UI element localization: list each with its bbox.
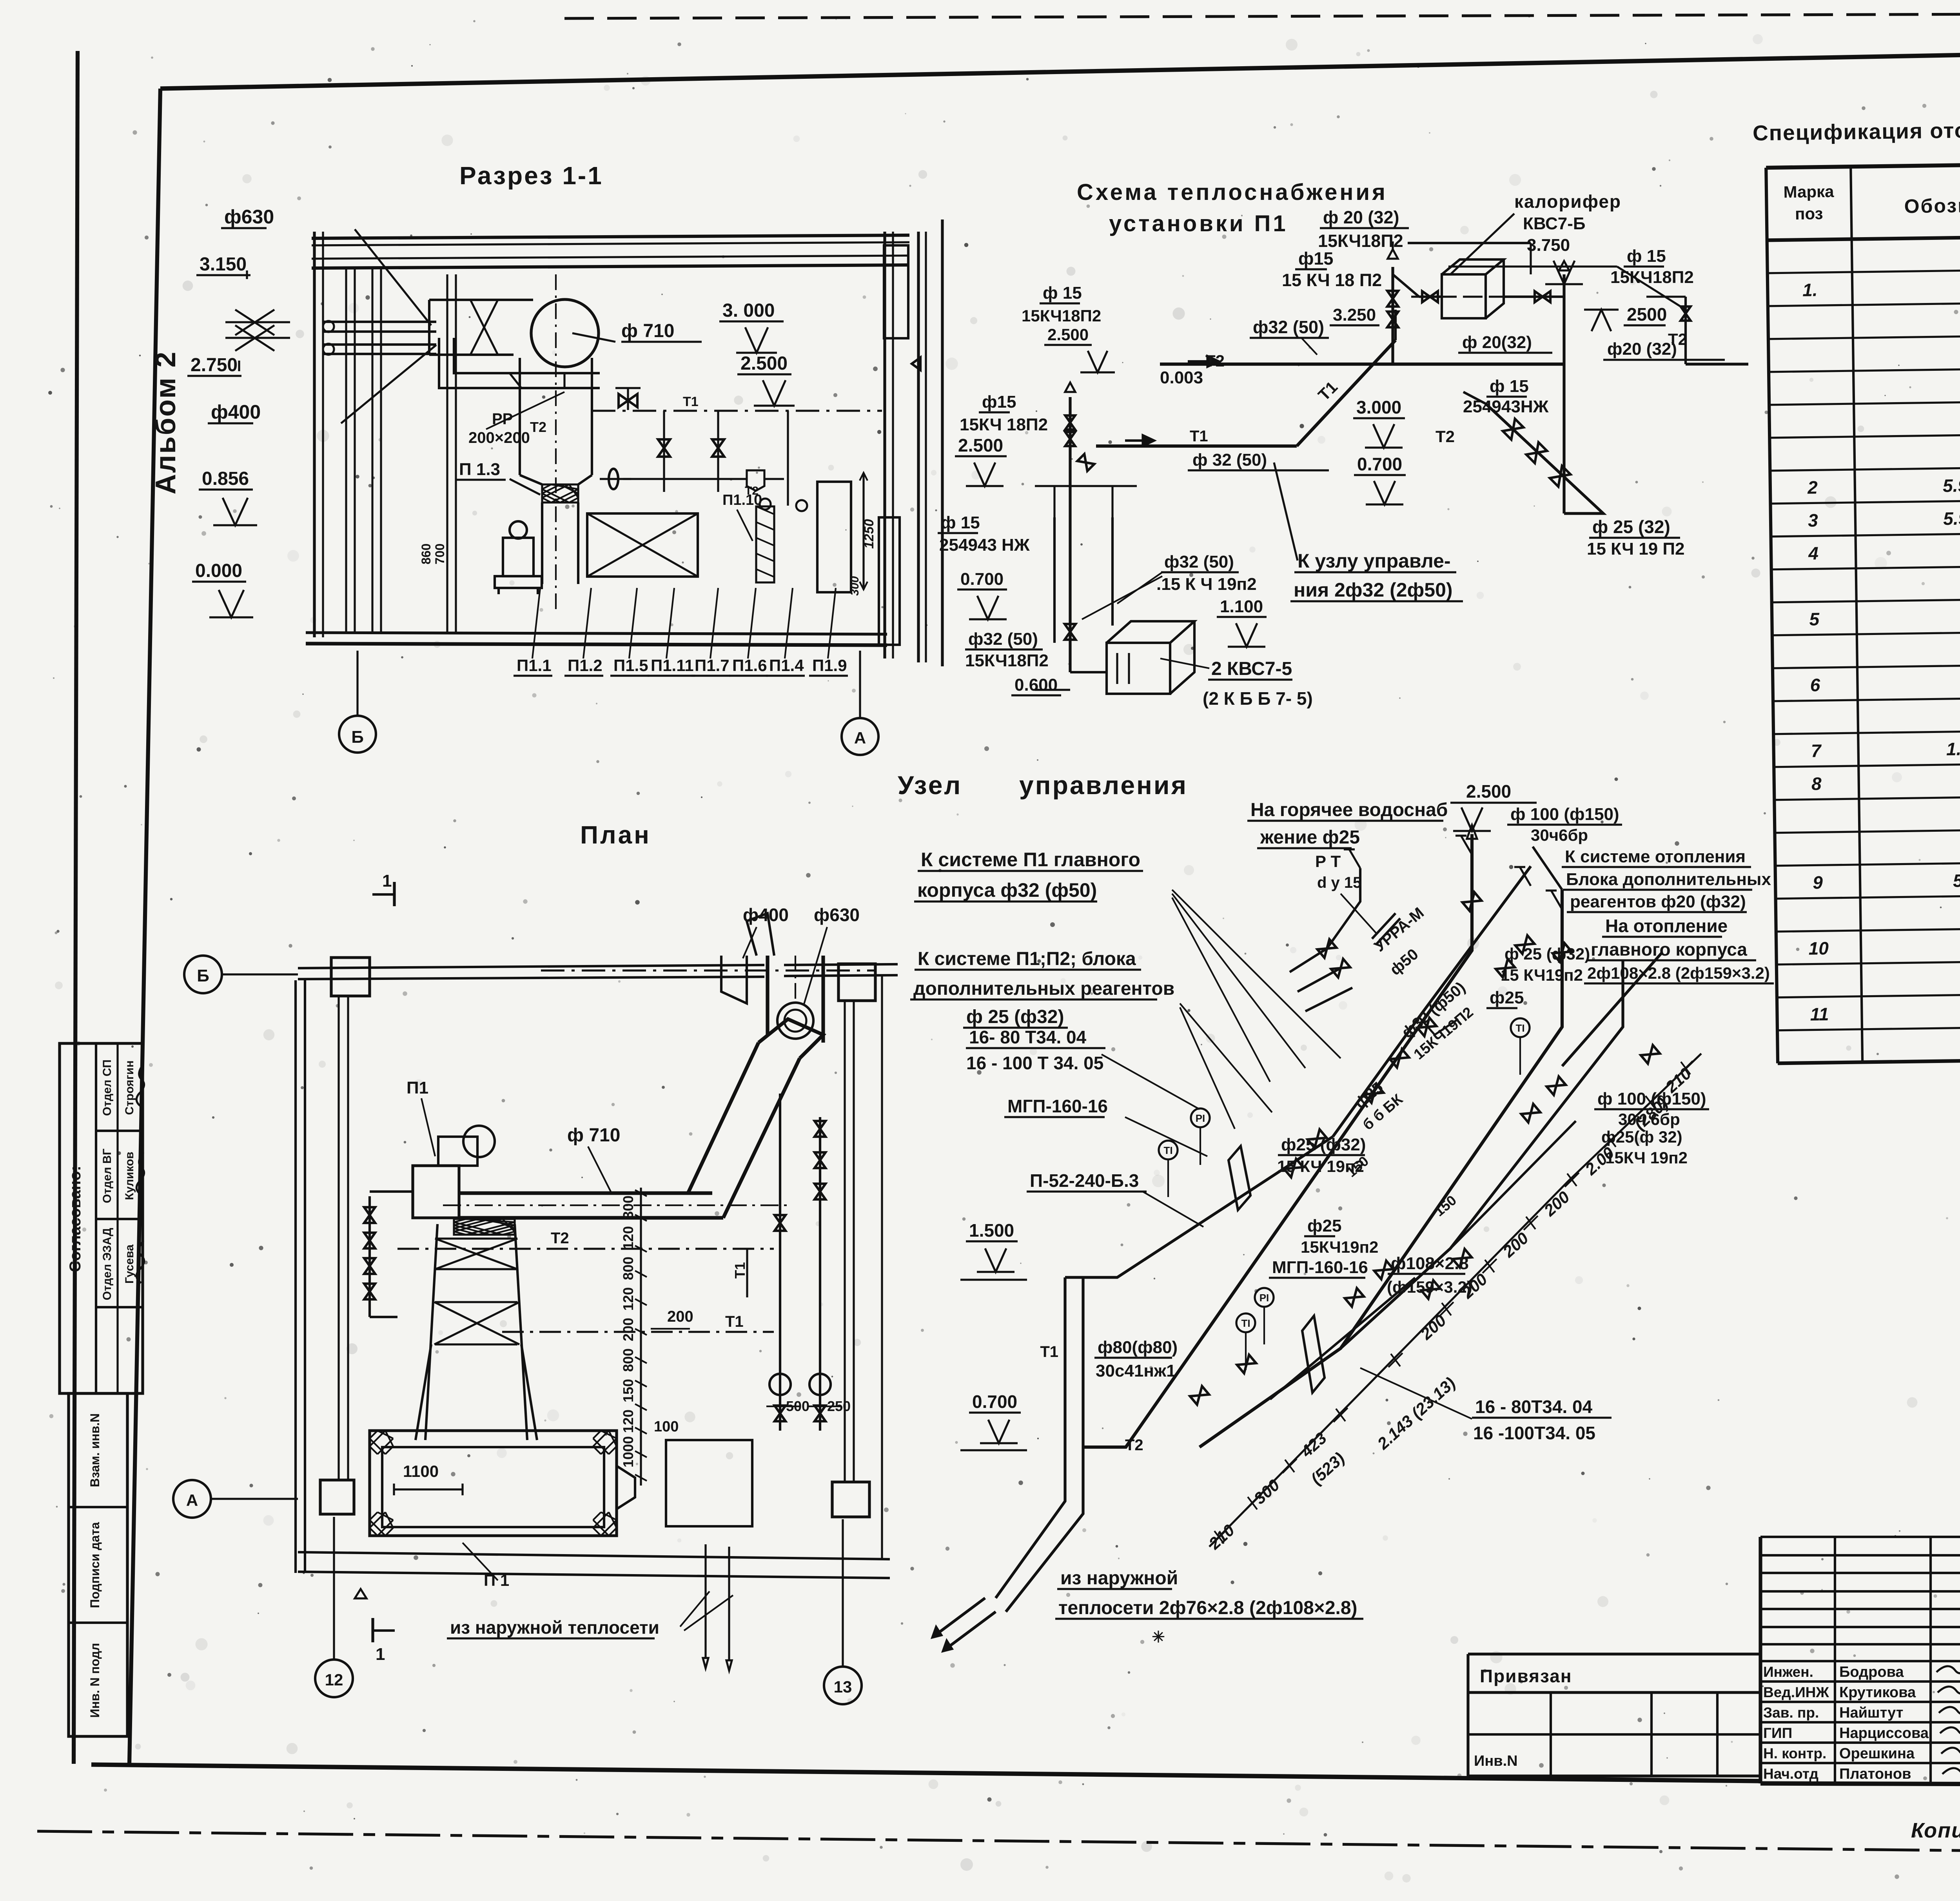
svg-text:П 1.3: П 1.3 (459, 460, 500, 479)
svg-text:Т1: Т1 (732, 1262, 748, 1279)
svg-text:П1: П1 (407, 1078, 428, 1097)
svg-text:ф630: ф630 (814, 905, 860, 925)
svg-text:150: 150 (620, 1379, 636, 1402)
svg-text:1.494-25: 1.494-25 (1946, 738, 1960, 759)
svg-text:5.904-38: 5.904-38 (1943, 475, 1960, 496)
svg-text:2.750: 2.750 (191, 355, 238, 375)
svg-text:Отдел СП: Отдел СП (101, 1059, 114, 1116)
svg-text:16 -100Т34. 05: 16 -100Т34. 05 (1473, 1423, 1595, 1443)
svg-text:ния 2ф32 (2ф50): ния 2ф32 (2ф50) (1294, 579, 1453, 601)
svg-text:П1.9: П1.9 (812, 656, 847, 675)
svg-text:Крутикова: Крутикова (1839, 1684, 1916, 1701)
svg-text:1.: 1. (1802, 279, 1818, 300)
svg-text:Согласовано:: Согласовано: (67, 1166, 84, 1272)
svg-text:Копировал: Копировал (1911, 1819, 1960, 1842)
svg-text:8: 8 (1811, 773, 1822, 794)
svg-text:ф 25 (32): ф 25 (32) (1592, 517, 1670, 537)
svg-text:d у 15: d у 15 (1317, 874, 1361, 891)
svg-text:Отдел ВГ: Отдел ВГ (101, 1148, 114, 1203)
svg-text:ф15: ф15 (982, 392, 1016, 412)
svg-text:4: 4 (1808, 543, 1818, 563)
svg-text:ф400: ф400 (743, 905, 789, 925)
svg-text:ф25: ф25 (1490, 988, 1524, 1007)
svg-text:15КЧ18П2: 15КЧ18П2 (1022, 307, 1101, 325)
svg-text:120: 120 (620, 1226, 636, 1250)
svg-text:7: 7 (1811, 740, 1822, 761)
svg-text:1.500: 1.500 (969, 1220, 1014, 1241)
svg-text:Инв.N: Инв.N (1474, 1753, 1518, 1769)
svg-text:✳: ✳ (1152, 1629, 1165, 1646)
svg-text:15КЧ 19п2: 15КЧ 19п2 (1605, 1148, 1688, 1167)
svg-text:ф 100 (ф150): ф 100 (ф150) (1510, 805, 1619, 824)
svg-text:Гусева: Гусева (123, 1244, 136, 1284)
svg-text:800: 800 (620, 1348, 636, 1372)
svg-text:Нач.отд: Нач.отд (1763, 1766, 1818, 1782)
svg-text:30ч6бр: 30ч6бр (1531, 826, 1588, 844)
svg-text:3. 000: 3. 000 (722, 300, 775, 321)
svg-text:12: 12 (325, 1671, 343, 1689)
svg-text:100: 100 (654, 1418, 679, 1435)
svg-text:Марка: Марка (1783, 182, 1834, 201)
svg-text:К системе П1 главного: К системе П1 главного (921, 849, 1140, 871)
svg-text:15КЧ18П2: 15КЧ18П2 (1318, 231, 1403, 251)
svg-text:А: А (186, 1491, 198, 1509)
svg-text:ГИП: ГИП (1763, 1725, 1792, 1741)
svg-text:главного корпуса: главного корпуса (1591, 939, 1747, 960)
svg-text:корпуса ф32 (ф50): корпуса ф32 (ф50) (917, 879, 1097, 901)
svg-text:МГП-160-16: МГП-160-16 (1272, 1258, 1368, 1277)
svg-text:ф 15: ф 15 (941, 513, 980, 532)
svg-text:15КЧ18П2: 15КЧ18П2 (965, 651, 1049, 670)
svg-text:0.003: 0.003 (1160, 368, 1203, 387)
svg-text:ф 25 (ф32): ф 25 (ф32) (966, 1007, 1064, 1027)
svg-text:ф 15: ф 15 (1043, 283, 1082, 303)
svg-text:КВС7-Б: КВС7-Б (1523, 214, 1585, 233)
svg-text:ТI: ТI (1163, 1145, 1172, 1156)
svg-text:установки П1: установки П1 (1109, 211, 1288, 236)
svg-text:16- 80 Т34. 04: 16- 80 Т34. 04 (969, 1027, 1087, 1047)
svg-text:10: 10 (1808, 938, 1829, 959)
svg-text:0.600: 0.600 (1014, 675, 1058, 695)
svg-text:2: 2 (1807, 477, 1818, 497)
svg-text:Т2: Т2 (1436, 427, 1455, 446)
svg-text:Куликов: Куликов (123, 1152, 136, 1200)
svg-text:3.250: 3.250 (1333, 305, 1376, 325)
svg-text:Т2: Т2 (530, 419, 546, 435)
svg-text:Т1: Т1 (683, 394, 699, 409)
svg-text:ф25: ф25 (1307, 1216, 1341, 1235)
svg-text:П1.2: П1.2 (568, 656, 603, 675)
svg-text:управления: управления (1019, 771, 1188, 800)
svg-text:П1.11: П1.11 (651, 656, 694, 675)
svg-text:1250: 1250 (862, 519, 877, 549)
svg-text:30с41нж1: 30с41нж1 (1096, 1361, 1176, 1380)
svg-text:ф 15: ф 15 (1627, 247, 1666, 266)
svg-text:из наружной теплосети: из наружной теплосети (450, 1617, 659, 1638)
svg-text:Т2: Т2 (1205, 352, 1225, 370)
svg-text:300: 300 (620, 1195, 636, 1219)
svg-text:2 КВС7-5: 2 КВС7-5 (1211, 658, 1292, 679)
svg-text:5.904-4: 5.904-4 (1953, 870, 1960, 891)
svg-text:15 КЧ 18 П2: 15 КЧ 18 П2 (1282, 270, 1382, 290)
svg-text:РI: РI (1259, 1292, 1269, 1304)
svg-text:1: 1 (376, 1645, 385, 1664)
svg-text:Т1: Т1 (1040, 1343, 1058, 1360)
svg-text:120: 120 (620, 1409, 636, 1433)
svg-text:3: 3 (1808, 510, 1818, 530)
svg-text:1000: 1000 (620, 1436, 636, 1467)
svg-text:ф 15: ф 15 (1490, 377, 1529, 396)
svg-text:Б: Б (351, 727, 364, 747)
svg-text:Р Т: Р Т (1315, 852, 1341, 871)
svg-text:Альбом 2: Альбом 2 (150, 351, 181, 495)
svg-text:Блока дополнительных: Блока дополнительных (1566, 870, 1771, 889)
svg-text:6: 6 (1810, 675, 1820, 695)
svg-text:Взам. инв.N: Взам. инв.N (88, 1413, 102, 1487)
svg-text:2500: 2500 (1627, 304, 1667, 325)
svg-text:П1.4: П1.4 (769, 656, 804, 675)
svg-text:.15 К Ч 19п2: .15 К Ч 19п2 (1156, 575, 1257, 594)
svg-text:ф 20(32): ф 20(32) (1462, 333, 1532, 352)
svg-text:Т1: Т1 (725, 1313, 744, 1330)
svg-text:Орешкина: Орешкина (1839, 1745, 1915, 1762)
svg-text:Инв. N подл: Инв. N подл (88, 1643, 102, 1718)
svg-text:Т2: Т2 (1668, 330, 1687, 348)
svg-text:13: 13 (834, 1678, 852, 1696)
svg-text:реагентов ф20 (ф32): реагентов ф20 (ф32) (1570, 892, 1746, 911)
svg-text:поз: поз (1795, 204, 1823, 223)
svg-text:3.150: 3.150 (200, 254, 247, 275)
svg-text:860: 860 (419, 544, 433, 564)
svg-text:ф108×2.8: ф108×2.8 (1391, 1254, 1469, 1273)
svg-text:Обозначение: Обозначение (1904, 194, 1960, 218)
svg-text:К системе П1;П2; блока: К системе П1;П2; блока (918, 949, 1136, 969)
svg-text:2ф108×2.8 (2ф159×3.2): 2ф108×2.8 (2ф159×3.2) (1587, 964, 1770, 982)
svg-text:П1.6: П1.6 (732, 656, 767, 675)
svg-text:П1.10: П1.10 (722, 492, 762, 508)
svg-text:калорифер: калорифер (1514, 191, 1621, 212)
svg-text:ф 32 (50): ф 32 (50) (1192, 450, 1267, 470)
svg-text:0.000: 0.000 (195, 561, 242, 581)
svg-text:300: 300 (848, 576, 861, 596)
svg-text:ф32 (50): ф32 (50) (1164, 552, 1234, 571)
svg-text:Инжен.: Инжен. (1763, 1664, 1813, 1680)
svg-text:Н. контр.: Н. контр. (1763, 1745, 1826, 1761)
svg-text:9: 9 (1813, 872, 1823, 892)
svg-text:800: 800 (620, 1257, 636, 1280)
svg-text:П-52-240-Б.3: П-52-240-Б.3 (1030, 1170, 1139, 1191)
svg-text:План: План (580, 821, 651, 849)
svg-text:Привязан: Привязан (1480, 1666, 1572, 1686)
svg-text:из наружной: из наружной (1060, 1568, 1178, 1589)
svg-text:11: 11 (1810, 1004, 1829, 1025)
svg-text:(2 К Б Б 7- 5): (2 К Б Б 7- 5) (1203, 688, 1313, 709)
svg-text:16 - 80Т34. 04: 16 - 80Т34. 04 (1475, 1397, 1593, 1417)
svg-text:ф20 (32): ф20 (32) (1607, 339, 1677, 359)
svg-text:200: 200 (620, 1318, 636, 1341)
svg-text:РI: РI (1196, 1112, 1205, 1124)
svg-text:Отдел ЭЗАД: Отдел ЭЗАД (101, 1228, 114, 1301)
svg-text:254943НЖ: 254943НЖ (1463, 397, 1549, 416)
svg-text:ф 20 (32): ф 20 (32) (1323, 207, 1399, 227)
svg-text:К узлу управле-: К узлу управле- (1298, 550, 1451, 572)
svg-text:Нарциссова: Нарциссова (1839, 1725, 1929, 1741)
svg-text:П1.7: П1.7 (695, 656, 730, 675)
svg-text:700: 700 (433, 544, 447, 564)
svg-text:К системе отопления: К системе отопления (1565, 847, 1746, 866)
svg-text:0.856: 0.856 (202, 468, 249, 489)
svg-text:2.500: 2.500 (1047, 325, 1089, 344)
svg-text:На отопление: На отопление (1605, 916, 1728, 936)
svg-text:2.500: 2.500 (740, 353, 788, 374)
svg-text:ф32 (50): ф32 (50) (1253, 317, 1324, 337)
svg-text:ф400: ф400 (211, 401, 261, 423)
svg-text:ф25 (ф32): ф25 (ф32) (1281, 1135, 1366, 1154)
svg-text:2.500: 2.500 (1466, 781, 1511, 802)
svg-text:Вед.ИНЖ: Вед.ИНЖ (1763, 1684, 1829, 1700)
svg-text:А: А (854, 729, 866, 747)
svg-text:ф 710: ф 710 (621, 321, 674, 341)
svg-text:Т1: Т1 (1190, 428, 1208, 445)
svg-text:0.700: 0.700 (972, 1391, 1017, 1412)
svg-text:ТI: ТI (1241, 1317, 1250, 1329)
svg-text:15КЧ19п2: 15КЧ19п2 (1301, 1238, 1378, 1256)
svg-text:П1.5: П1.5 (613, 656, 648, 675)
svg-text:200: 200 (667, 1308, 693, 1325)
svg-text:0.700: 0.700 (960, 570, 1004, 589)
svg-text:теплосети 2ф76×2.8 (2ф108×2.8): теплосети 2ф76×2.8 (2ф108×2.8) (1058, 1598, 1357, 1618)
svg-text:1: 1 (382, 871, 392, 891)
svg-text:Т2: Т2 (551, 1230, 569, 1247)
svg-text:Бодрова: Бодрова (1839, 1664, 1904, 1680)
svg-text:МГП-160-16: МГП-160-16 (1007, 1096, 1108, 1116)
svg-text:5: 5 (1809, 609, 1820, 629)
svg-text:Узел: Узел (898, 771, 962, 800)
svg-text:0.700: 0.700 (1357, 454, 1402, 474)
svg-text:Б: Б (197, 966, 209, 985)
svg-text:16 - 100 Т 34. 05: 16 - 100 Т 34. 05 (966, 1053, 1103, 1073)
svg-text:ф32 (50): ф32 (50) (968, 629, 1038, 649)
svg-text:П 1: П 1 (484, 1571, 509, 1589)
svg-text:ф80(ф80): ф80(ф80) (1098, 1338, 1178, 1357)
svg-text:1100: 1100 (403, 1462, 439, 1480)
svg-text:ф 710: ф 710 (567, 1125, 620, 1146)
svg-text:Подписи дата: Подписи дата (88, 1522, 102, 1608)
svg-text:жение ф25: жение ф25 (1260, 827, 1360, 848)
svg-text:На горячее водоснаб: На горячее водоснаб (1250, 800, 1448, 820)
svg-text:15КЧ 18П2: 15КЧ 18П2 (960, 415, 1048, 434)
svg-text:Платонов: Платонов (1839, 1766, 1911, 1782)
svg-text:Строягин: Строягин (123, 1060, 136, 1115)
svg-text:5.904-38: 5.904-38 (1943, 508, 1960, 529)
svg-text:Зав. пр.: Зав. пр. (1763, 1705, 1819, 1721)
svg-text:Разрез 1-1: Разрез 1-1 (459, 161, 603, 190)
svg-text:Схема теплоснабжения: Схема теплоснабжения (1077, 180, 1388, 205)
svg-text:3.750: 3.750 (1527, 236, 1570, 255)
svg-text:120: 120 (620, 1287, 636, 1311)
svg-text:дополнительных реагентов: дополнительных реагентов (913, 978, 1174, 999)
svg-text:ф15: ф15 (1298, 249, 1333, 268)
svg-text:П1.1: П1.1 (517, 656, 552, 675)
svg-text:2.500: 2.500 (958, 435, 1003, 455)
svg-text:Найштут: Найштут (1839, 1705, 1903, 1721)
svg-text:3.000: 3.000 (1356, 397, 1401, 417)
svg-text:ф630: ф630 (224, 206, 274, 228)
svg-text:1.100: 1.100 (1220, 597, 1263, 616)
svg-text:254943 НЖ: 254943 НЖ (939, 535, 1030, 555)
svg-text:15 КЧ 19 П2: 15 КЧ 19 П2 (1587, 539, 1685, 559)
svg-text:ТI: ТI (1515, 1022, 1524, 1034)
